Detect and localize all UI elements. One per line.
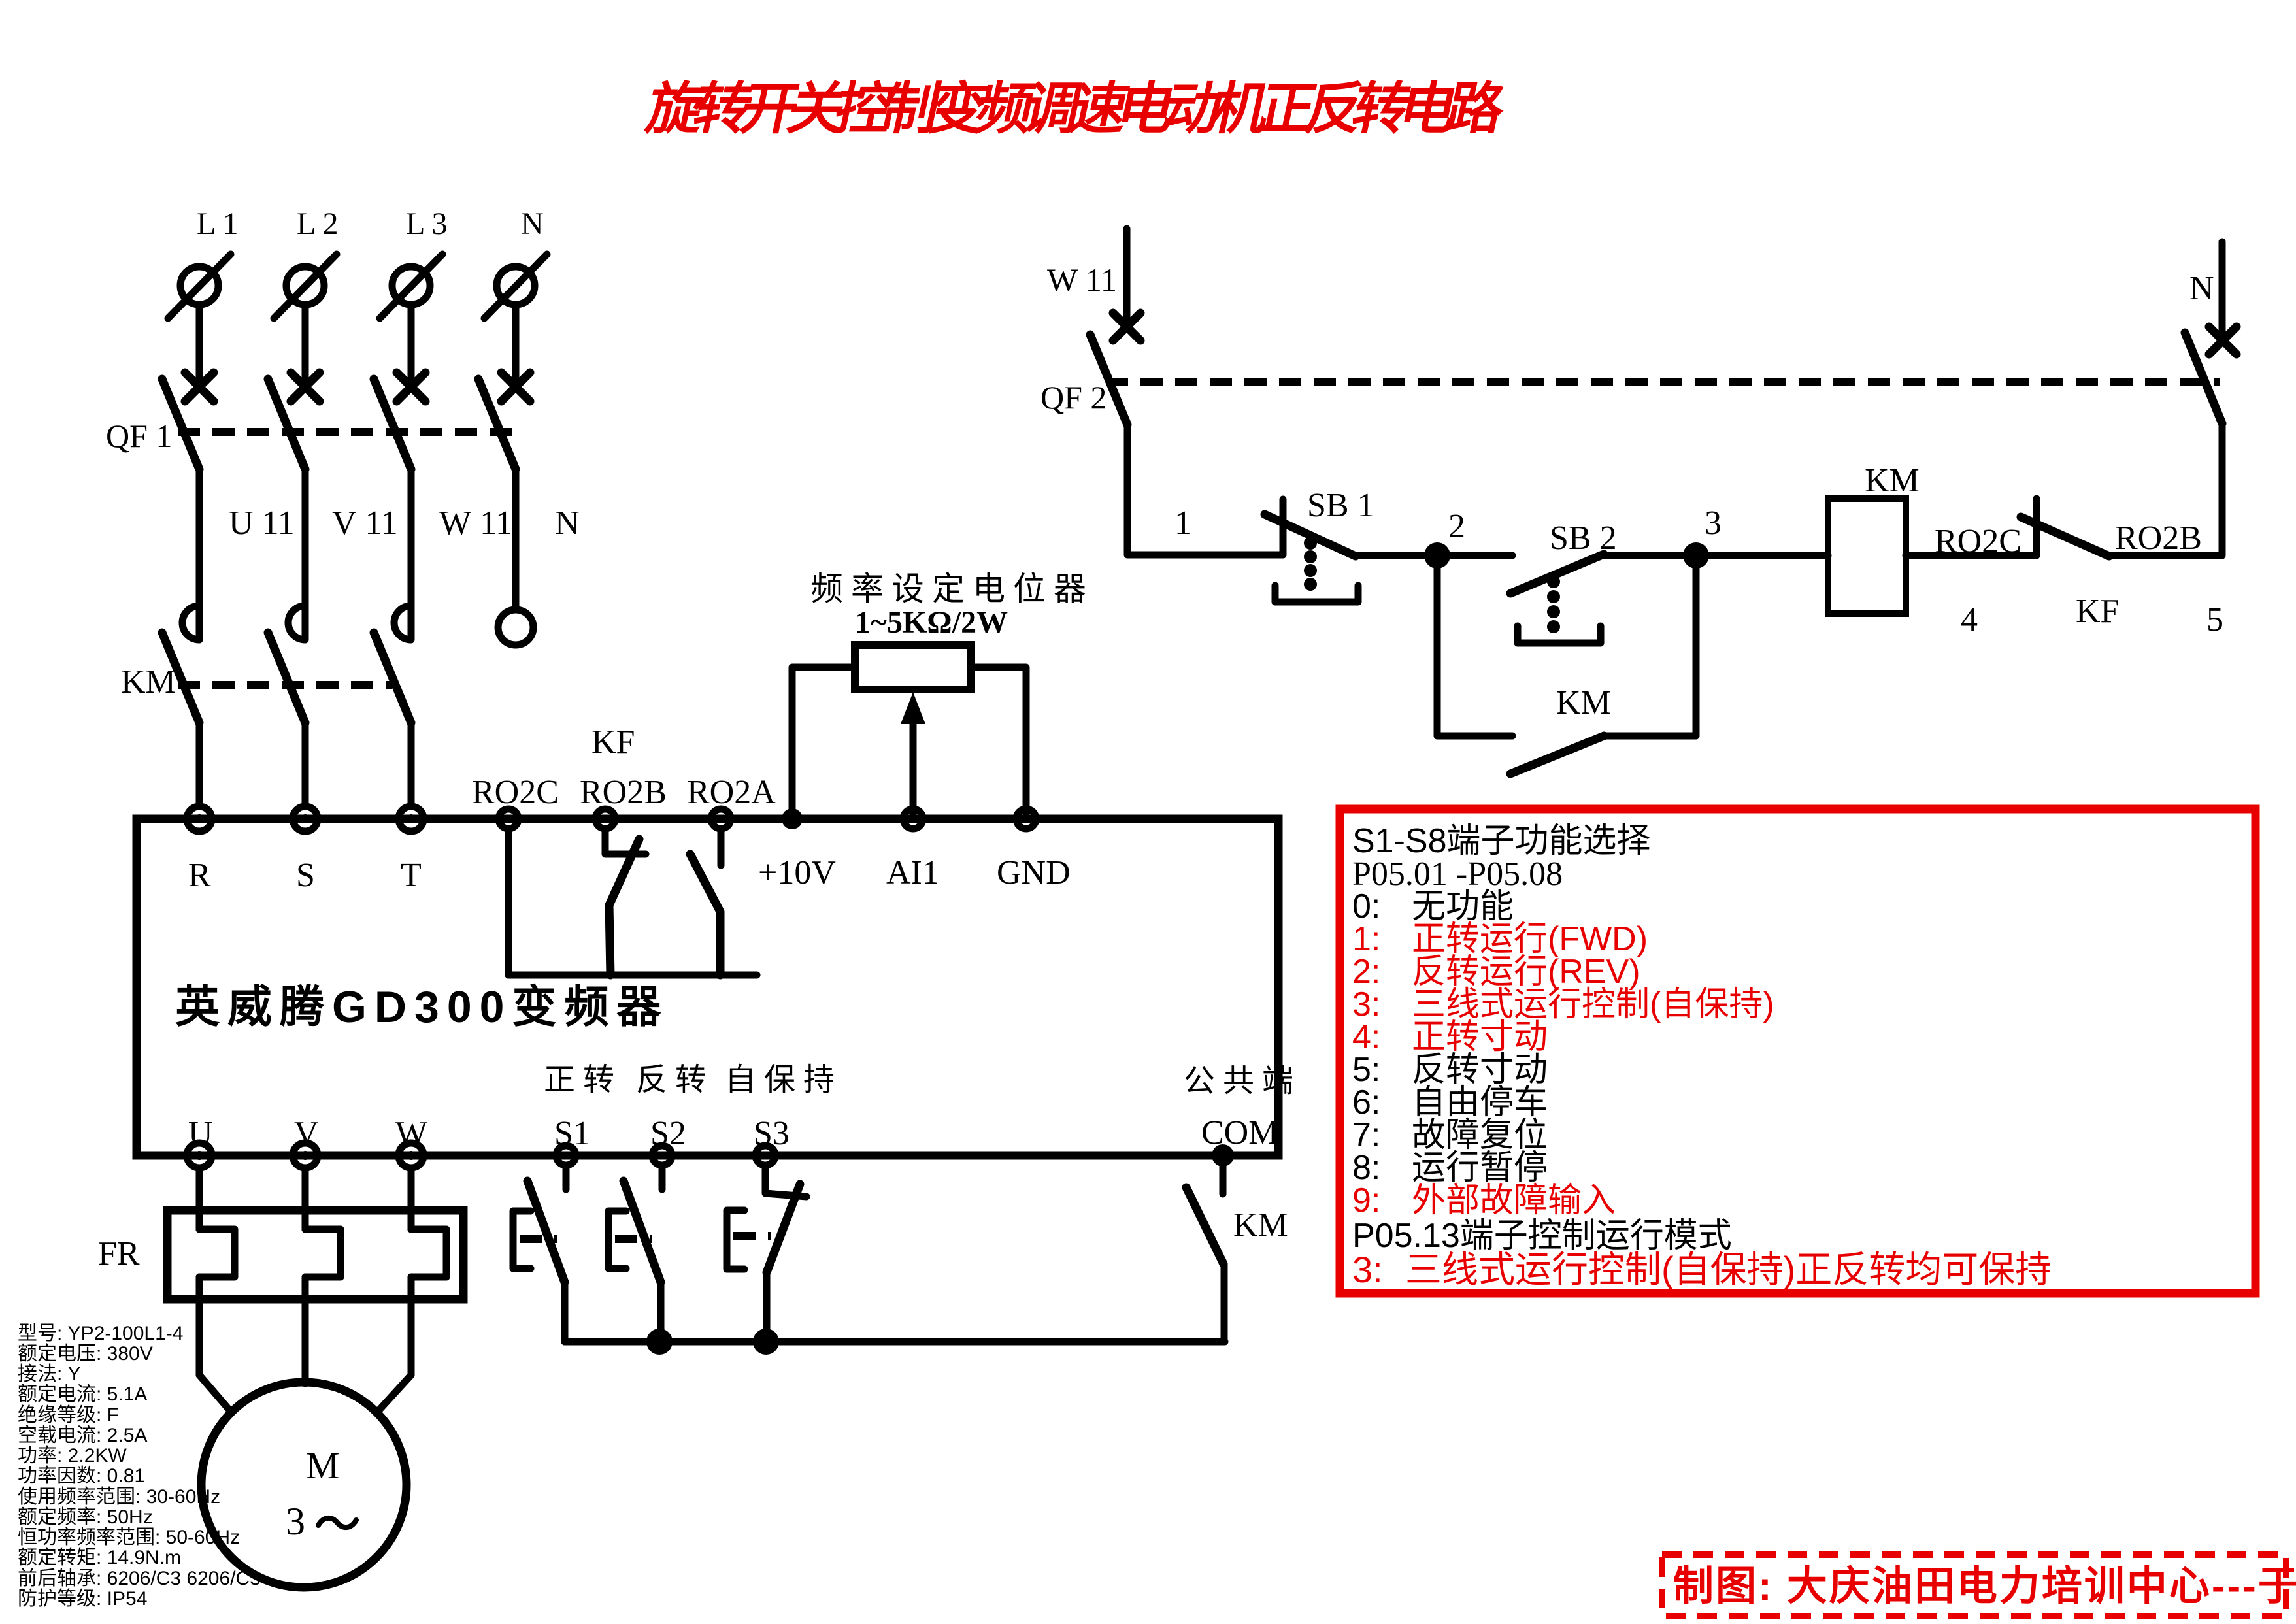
potentiometer RP body [855, 645, 971, 689]
svg-text:反转: 反转 [636, 1063, 714, 1097]
svg-text:接法: Y: 接法: Y [18, 1363, 81, 1385]
FR heater element pole2 [305, 1229, 341, 1277]
label 反转 [636, 1063, 714, 1097]
breaker QF1 blade poleN [478, 379, 516, 469]
breaker QF1 blade pole2 [268, 379, 305, 469]
stamp dashed red box [1662, 1555, 2286, 1616]
breaker QF1 linkage dashed [178, 428, 515, 436]
svg-text:制图: 大庆油田电力培训中心---于宝水: 制图: 大庆油田电力培训中心---于宝水 [1673, 1564, 2296, 1609]
title 旋转开关控制变频调速电动机正反转电路 [641, 78, 1511, 141]
wire SB1 to node2 [1356, 552, 1512, 559]
switch SA contact S3 stub [765, 1165, 807, 1197]
terminal S1 label [554, 1115, 590, 1152]
wire L2 drop [302, 305, 309, 384]
terminal AI1 [903, 809, 923, 829]
button SB2 label [1550, 520, 1617, 557]
wire KM aux down [1221, 1264, 1228, 1342]
contactor KM self-hold label [1556, 684, 1611, 721]
svg-text:W 11: W 11 [439, 505, 512, 542]
terminal V [293, 1143, 318, 1168]
wire pot right to GND [971, 667, 1026, 819]
thermal relay FR box [167, 1210, 463, 1299]
terminal V label [294, 1115, 319, 1152]
svg-text:1: 1 [1174, 505, 1191, 542]
svg-text:S2: S2 [650, 1115, 686, 1152]
terminal W label [395, 1115, 427, 1152]
svg-text:QF 2: QF 2 [1040, 379, 1106, 416]
node 1 label [1174, 505, 1191, 542]
terminal S [293, 806, 318, 831]
svg-text:KF: KF [591, 723, 635, 761]
switch SA contact S1 blade [527, 1181, 565, 1282]
wire U to FR [196, 1168, 203, 1229]
wire KF to N pole [2109, 425, 2222, 555]
wire QF1 pole1 down [196, 469, 203, 638]
label 正转 [544, 1063, 622, 1097]
wire FR pole2 down [302, 1277, 309, 1384]
node W 11 label [439, 505, 512, 542]
breaker QF1 contact cross poleN [501, 373, 530, 401]
svg-text:频率设定电位器: 频率设定电位器 [810, 571, 1094, 607]
wire KM pole1 to R [196, 723, 203, 806]
contactor KM blade pole2 [268, 633, 305, 723]
switch SA contact S2 stub [659, 1165, 666, 1189]
switch SA S3 link dashes [733, 1232, 771, 1240]
svg-text:3: 3 [286, 1500, 305, 1543]
svg-text:V: V [294, 1115, 319, 1152]
contactor KM aux NO blade [1186, 1187, 1223, 1264]
switch SB1 fixed tick [1280, 499, 1287, 555]
neutral terminal circle N [498, 610, 533, 645]
svg-text:KM: KM [121, 663, 176, 701]
contactor KM blade pole3 [374, 633, 411, 723]
svg-text:使用频率范围: 30-60Hz: 使用频率范围: 30-60Hz [18, 1486, 220, 1508]
breaker QF1 blade pole3 [374, 379, 411, 469]
wire pot left to +10V [792, 667, 855, 819]
thermal relay FR label [98, 1235, 140, 1272]
terminal RO2C label [472, 774, 559, 811]
terminal RO2B label [580, 774, 667, 811]
terminal T [399, 806, 424, 831]
svg-text:KF: KF [2076, 593, 2119, 630]
wire V to FR [302, 1168, 309, 1229]
motor spec text block [18, 1323, 261, 1610]
relay KF NO blade [690, 854, 720, 975]
node N label control [2189, 270, 2214, 307]
node L1 label [197, 207, 239, 241]
breaker QF2 cross left [1113, 313, 1140, 340]
svg-text:公共端: 公共端 [1184, 1064, 1301, 1099]
wire N control drop [2219, 242, 2226, 340]
node L2 label [297, 207, 339, 241]
terminal COM junction dot [1212, 1144, 1234, 1167]
svg-text:S1-S8端子功能选择: S1-S8端子功能选择 [1352, 822, 1651, 860]
wire KM self-hold to node3 [1604, 555, 1696, 736]
wire coil to KF [1906, 552, 2037, 559]
contactor KM self-hold NO blade [1510, 736, 1604, 774]
wire motor lead right diagonal [377, 1375, 411, 1412]
svg-text:额定转矩: 14.9N.m: 额定转矩: 14.9N.m [18, 1547, 181, 1568]
terminal U label [188, 1115, 213, 1152]
contactor KM self-hold branch down [1437, 555, 1512, 736]
terminal S2 label [650, 1115, 686, 1152]
contactor KM label [121, 663, 176, 701]
svg-text:GND: GND [997, 854, 1071, 891]
switch SB2 chain beads [1547, 575, 1560, 633]
relay KF NC blade [609, 839, 639, 975]
breaker QF1 blade pole1 [162, 379, 199, 469]
motor 3-phase label [286, 1500, 356, 1543]
node W 11 label control [1047, 261, 1117, 298]
breaker QF1 contact cross pole1 [185, 373, 214, 401]
connector hook pole1 [182, 606, 199, 640]
breaker QF2 label [1040, 379, 1106, 416]
svg-text:COM: COM [1201, 1114, 1278, 1152]
svg-text:N: N [2189, 270, 2214, 307]
wire L3 drop [408, 305, 415, 384]
switch SA S1 operator bracket [513, 1211, 531, 1268]
svg-text:功率因数: 0.81: 功率因数: 0.81 [18, 1465, 145, 1487]
terminal R label [188, 857, 211, 894]
switch SA contact S1 stub [563, 1165, 570, 1189]
wire SB2 to node3 [1604, 552, 1828, 559]
svg-text:1~5KΩ/2W: 1~5KΩ/2W [855, 605, 1008, 640]
svg-text:N: N [555, 505, 580, 542]
svg-text:KM: KM [1865, 462, 1920, 499]
svg-text:2: 2 [1448, 508, 1465, 545]
FR heater element pole1 [199, 1229, 235, 1277]
wire S3 blade down [763, 1272, 771, 1342]
label 自保持 [725, 1063, 842, 1097]
relay KF contact tick [2033, 499, 2040, 555]
svg-text:防护等级: IP54: 防护等级: IP54 [18, 1588, 147, 1610]
svg-text:英威腾GD300变频器: 英威腾GD300变频器 [175, 982, 669, 1032]
potentiometer label 频率设定电位器 [810, 571, 1094, 607]
svg-text:5: 5 [2206, 601, 2223, 638]
fuse/disconnect symbol L1 [168, 254, 231, 318]
junction dot S2 bus [646, 1329, 673, 1355]
node N label [521, 207, 544, 241]
svg-text:RO2C: RO2C [472, 774, 559, 811]
switch SA S2 operator bracket [608, 1211, 626, 1268]
connector hook pole3 [394, 606, 411, 640]
node U 11 label [229, 505, 295, 542]
breaker QF2 blade right [2185, 333, 2222, 423]
label 公共端 [1184, 1064, 1301, 1099]
wire motor lead left diagonal [199, 1375, 231, 1412]
motor M label [306, 1444, 340, 1487]
breaker QF1 contact cross pole3 [397, 373, 425, 401]
svg-text:L 3: L 3 [406, 207, 448, 241]
svg-text:空载电流: 2.5A: 空载电流: 2.5A [18, 1425, 147, 1446]
svg-text:S: S [296, 857, 315, 894]
parameter text lines [1352, 822, 2052, 1290]
svg-text:4: 4 [1961, 601, 1978, 638]
terminal S3 label [754, 1115, 790, 1152]
relay KF contact blade [2021, 517, 2109, 556]
svg-text:恒功率频率范围: 50-60Hz: 恒功率频率范围: 50-60Hz [18, 1527, 240, 1548]
wire L1 drop [196, 305, 203, 384]
svg-text:W: W [395, 1115, 427, 1152]
switch SA S3 operator bracket [727, 1210, 744, 1269]
svg-text:KM: KM [1556, 684, 1611, 721]
svg-text:V 11: V 11 [332, 505, 398, 542]
wire W11 control drop [1123, 229, 1131, 327]
terminal COM label [1201, 1114, 1278, 1152]
switch SB1 operator bracket [1275, 586, 1358, 602]
switch SA contact S3 blade [767, 1184, 800, 1272]
wire QF1 pole3 down [408, 469, 415, 638]
terminal R [187, 806, 212, 831]
svg-text:T: T [401, 857, 422, 894]
terminal W [399, 1143, 424, 1168]
wire RO2A stub [718, 829, 725, 865]
potentiometer wiper arrow [901, 692, 925, 819]
wire RO2B stub [605, 829, 646, 854]
wire N drop [512, 305, 520, 384]
terminal RO2A label [687, 774, 776, 811]
svg-text:绝缘等级: F: 绝缘等级: F [18, 1404, 119, 1426]
terminal GND [1016, 809, 1036, 829]
inverter label 英威腾GD300变频器 [175, 982, 669, 1032]
breaker QF2 cross right [2209, 327, 2237, 354]
svg-text:S1: S1 [554, 1115, 590, 1152]
switch SB1 blade [1265, 514, 1356, 556]
breaker QF2 linkage dashed [1106, 378, 2220, 386]
svg-text:SB 1: SB 1 [1307, 487, 1374, 524]
switch SB1 chain beads [1304, 537, 1317, 591]
motor M circle [201, 1382, 407, 1587]
svg-text:额定电压: 380V: 额定电压: 380V [18, 1343, 153, 1365]
contactor KM aux label [1233, 1206, 1288, 1244]
terminal GND label [997, 854, 1071, 891]
button SB1 label [1307, 487, 1374, 524]
svg-text:KM: KM [1233, 1206, 1288, 1244]
terminal AI1 label [886, 854, 939, 891]
terminal S2 [652, 1146, 672, 1165]
terminal S1 [556, 1146, 576, 1165]
fuse/disconnect symbol L2 [274, 254, 337, 318]
svg-text:AI1: AI1 [886, 854, 939, 891]
svg-text:RO2C: RO2C [1935, 523, 2021, 560]
coil KM label [1865, 462, 1920, 499]
wire W to FR [408, 1168, 415, 1229]
wire S2 blade down [657, 1282, 665, 1342]
node RO2C label control [1935, 523, 2021, 560]
potentiometer value 1~5KΩ/2W [855, 605, 1008, 640]
junction node 3 dot [1683, 542, 1709, 569]
svg-text:L 2: L 2 [297, 207, 339, 241]
svg-text:U: U [188, 1115, 213, 1152]
fuse/disconnect symbol L3 [380, 254, 442, 318]
svg-text:S3: S3 [754, 1115, 790, 1152]
node L3 label [406, 207, 448, 241]
svg-text:型号: YP2-100L1-4: 型号: YP2-100L1-4 [18, 1323, 183, 1344]
node 4 label [1961, 601, 1978, 638]
parameter red box [1340, 809, 2255, 1293]
svg-text:+10V: +10V [758, 854, 836, 891]
svg-text:N: N [521, 207, 544, 241]
svg-text:QF 1: QF 1 [106, 418, 172, 454]
node 5 label [2206, 601, 2223, 638]
svg-text:前后轴承: 6206/C3 6206/C3: 前后轴承: 6206/C3 6206/C3 [18, 1568, 261, 1589]
svg-text:W 11: W 11 [1047, 261, 1117, 298]
node N label mid [555, 505, 580, 542]
svg-text:额定电流: 5.1A: 额定电流: 5.1A [18, 1384, 147, 1405]
node RO2B label control [2115, 520, 2202, 557]
wire S1 blade down [561, 1282, 569, 1342]
terminal S label [296, 857, 315, 894]
contactor KM linkage dashed [178, 681, 392, 689]
terminal U [187, 1143, 212, 1168]
svg-text:R: R [188, 857, 211, 894]
inverter GD300 box [137, 819, 1278, 1155]
switch SB2 operator bracket [1518, 626, 1601, 643]
switch SB2 blade [1510, 554, 1604, 593]
wire KM pole2 to S [302, 723, 309, 806]
wire QF1 poleN down [512, 469, 520, 606]
fuse/disconnect symbol N [484, 254, 547, 318]
node V 11 label [332, 505, 398, 542]
svg-text:旋转开关控制变频调速电动机正反转电路: 旋转开关控制变频调速电动机正反转电路 [641, 78, 1511, 141]
breaker QF2 blade left [1090, 335, 1127, 425]
wire S bottom bus [565, 1338, 1225, 1346]
stamp text 制图 [1673, 1564, 2296, 1609]
svg-text:额定频率: 50Hz: 额定频率: 50Hz [18, 1506, 153, 1528]
wire RO2C down [505, 829, 512, 975]
svg-text:RO2B: RO2B [2115, 520, 2202, 557]
svg-text:RO2A: RO2A [687, 774, 776, 811]
wire QF1 pole2 down [302, 469, 309, 638]
svg-text:自保持: 自保持 [725, 1063, 842, 1097]
terminal RO2C [499, 809, 518, 829]
svg-text:RO2B: RO2B [580, 774, 667, 811]
wire KM pole3 to T [408, 723, 415, 806]
node 3 label [1705, 505, 1722, 542]
relay KF label [591, 723, 635, 761]
terminal T label [401, 857, 422, 894]
svg-text:功率: 2.2KW: 功率: 2.2KW [18, 1445, 127, 1467]
svg-text:3:三线式运行控制(自保持)正反转均可保持: 3:三线式运行控制(自保持)正反转均可保持 [1352, 1249, 2052, 1290]
junction node 2 dot [1424, 542, 1450, 569]
FR heater element pole3 [411, 1229, 446, 1277]
junction dot S3 bus [753, 1329, 779, 1355]
contactor KM aux stub from COM [1220, 1167, 1227, 1194]
wire FR pole3 down [408, 1277, 415, 1375]
svg-text:FR: FR [98, 1235, 140, 1272]
breaker QF1 contact cross pole2 [291, 373, 320, 401]
terminal +10V label [758, 854, 836, 891]
switch SA S2 link dashes [615, 1235, 652, 1243]
junction +10V dot [782, 808, 803, 829]
terminal RO2A [711, 809, 731, 829]
svg-text:U 11: U 11 [229, 505, 295, 542]
wire FR pole1 down [196, 1277, 203, 1375]
svg-text:正转: 正转 [544, 1063, 622, 1097]
contactor KM blade pole1 [162, 633, 199, 723]
connector hook pole2 [288, 606, 305, 640]
relay KF contact label [2076, 593, 2119, 630]
svg-text:L 1: L 1 [197, 207, 239, 241]
switch SA contact S2 blade [624, 1181, 661, 1282]
wire QF2 left down [1127, 425, 1283, 555]
terminal RO2B [595, 809, 615, 829]
switch SA S1 link dashes [520, 1235, 557, 1243]
svg-text:M: M [306, 1444, 340, 1487]
coil KM body [1828, 499, 1906, 614]
wire KF bottom rail [508, 972, 757, 979]
breaker QF1 label [106, 418, 172, 454]
terminal S3 [756, 1146, 775, 1165]
svg-text:3: 3 [1705, 505, 1722, 542]
node 2 label [1448, 508, 1465, 545]
